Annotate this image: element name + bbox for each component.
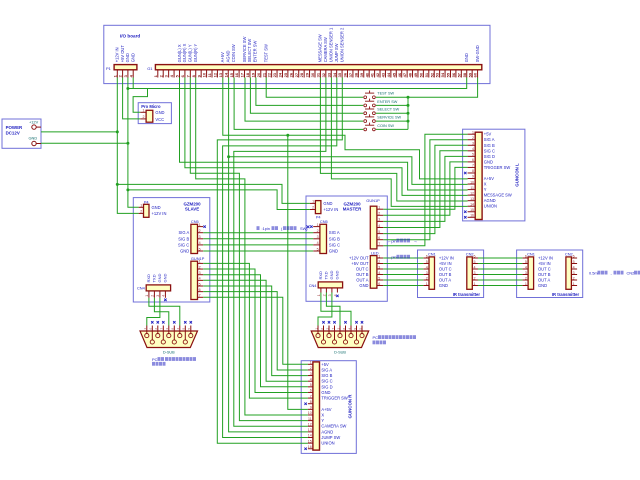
svg-text:3: 3 — [474, 271, 476, 275]
wire LED to IR1 CN1 OUT B — [383, 274, 423, 276]
power supply name — [6, 125, 23, 135]
svg-text:2: 2 — [426, 276, 428, 280]
svg-text:5: 5 — [199, 247, 201, 251]
connector P1 body — [114, 65, 137, 70]
svg-text:29: 29 — [305, 72, 310, 77]
connector P4 (master) refdes — [316, 214, 322, 219]
svg-text:SLAVE: SLAVE — [185, 207, 199, 212]
connector GUNCON L body — [475, 132, 482, 219]
svg-text:1: 1 — [312, 200, 314, 204]
svg-text:4: 4 — [378, 271, 380, 275]
svg-text:SIG D: SIG D — [321, 384, 332, 389]
wire +5V OUT P1 pin2 to Pro Micro VCC — [123, 78, 141, 119]
connector GUN1P (slave) refdes — [191, 256, 205, 261]
wire ENTER SW left — [256, 78, 363, 106]
svg-text:50: 50 — [418, 72, 423, 77]
svg-text:43: 43 — [381, 72, 386, 77]
connector CN4 (slave) pins — [149, 291, 166, 298]
wire MASTER GUN1P pin6 to GUNCON L pin2 — [383, 140, 467, 240]
connector CN5 (slave) body — [191, 224, 198, 253]
svg-text:3: 3 — [573, 271, 575, 275]
svg-text:TEST SW: TEST SW — [264, 44, 269, 62]
power pin +12V — [32, 125, 41, 129]
svg-text:+5V IN: +5V IN — [439, 261, 452, 266]
connector GUN1P (slave) pin numbers — [199, 260, 201, 298]
connector LED pin labels — [349, 256, 369, 289]
connector CN2 (2) refdes — [565, 251, 573, 256]
sheet GUNCON L name — [515, 163, 520, 187]
wire MASTER CN4 pin2 to D-SUB2 — [326, 293, 340, 326]
svg-text:40: 40 — [364, 72, 369, 77]
connector P1 pin labels — [115, 45, 136, 63]
connector CN4 (slave) body — [146, 285, 170, 291]
svg-text:AGND: AGND — [321, 429, 333, 434]
wire SERVICE SW left — [245, 78, 363, 122]
connector D-SUB 2 pin sockets — [316, 334, 364, 345]
svg-text:2: 2 — [312, 206, 314, 210]
svg-text:2: 2 — [151, 295, 155, 297]
svg-text:33: 33 — [326, 72, 331, 77]
wire MASTER CN4 pin3 to D-SUB2 — [318, 293, 332, 326]
svg-text:1: 1 — [140, 203, 142, 207]
svg-text:2: 2 — [140, 210, 142, 214]
svg-text:4: 4 — [573, 265, 575, 269]
svg-text:1: 1 — [472, 130, 474, 134]
svg-text:OUT A: OUT A — [439, 278, 451, 283]
svg-text:26: 26 — [288, 72, 293, 77]
junction switch bus SELECT — [407, 112, 410, 115]
svg-text:5: 5 — [525, 260, 527, 264]
sheet IR transmitter 1 box — [418, 250, 484, 298]
svg-text:SIG A: SIG A — [178, 230, 189, 235]
svg-text:I/O board: I/O board — [120, 34, 140, 39]
svg-text:OUT B: OUT B — [439, 272, 452, 277]
connector CN5 (slave) pin labels — [178, 230, 189, 253]
svg-text:CAMERA SW: CAMERA SW — [323, 37, 328, 62]
wire +12V P1 pin1 down to SLAVE P4 pin2 — [117, 78, 138, 214]
connector GUN1P (master) refdes — [366, 198, 380, 203]
wire TEST SW right — [376, 96, 408, 98]
svg-text:COIN SW: COIN SW — [231, 44, 236, 62]
svg-text:13: 13 — [470, 197, 474, 201]
wire SLAVE CN4 pin2 to D-SUB1 — [154, 298, 168, 326]
connector LED refdes — [371, 251, 379, 256]
svg-text:→: → — [414, 238, 418, 243]
svg-text:4: 4 — [426, 265, 428, 269]
junction switch bus ENTER — [407, 104, 410, 107]
sheet I/O board — [104, 25, 490, 83]
svg-text:1: 1 — [310, 361, 312, 365]
wire GUN(R) Y to GUNCON R pin10 — [196, 78, 308, 416]
svg-text:3: 3 — [378, 218, 380, 222]
svg-text:42: 42 — [375, 72, 380, 77]
svg-text:54: 54 — [440, 72, 445, 77]
svg-text:CN2: CN2 — [565, 251, 573, 256]
wire MASTER CN4 pin1 to D-SUB2 — [321, 293, 351, 326]
svg-text:14: 14 — [470, 202, 474, 206]
wire CN5 SIG A slave to master — [203, 232, 313, 234]
wire A+5V from G1 pin13 to GUNCON L pin9 — [223, 78, 468, 179]
svg-text:CN1: CN1 — [428, 251, 436, 256]
svg-text:GUN(L) Y: GUN(L) Y — [188, 44, 193, 62]
wire ENTER SW right — [376, 104, 408, 106]
connector CN1 (1) pin numbers — [426, 254, 428, 286]
svg-text:2: 2 — [317, 229, 319, 233]
svg-text:13: 13 — [218, 72, 223, 77]
connector CN5 (master) pins — [313, 227, 320, 251]
svg-text:7: 7 — [199, 294, 201, 298]
connector CN4 (master) pin numbers — [317, 294, 338, 296]
svg-text:2: 2 — [378, 260, 380, 264]
svg-text:2: 2 — [474, 276, 476, 280]
svg-text:57: 57 — [456, 72, 461, 77]
svg-text:1: 1 — [145, 295, 149, 297]
svg-text:+12V IN: +12V IN — [115, 47, 120, 62]
connector D-SUB 1 body — [140, 331, 198, 348]
connector P4 (master) pin labels — [323, 201, 338, 212]
wire UNION SENSER 1 to GUNCON L pin14 — [331, 78, 467, 207]
svg-text:ENTER SW: ENTER SW — [377, 100, 397, 104]
wire SERVICE SW right — [376, 120, 408, 122]
svg-text:8: 8 — [310, 400, 312, 404]
connector CN5 (master) pin labels — [329, 230, 340, 253]
svg-text:39: 39 — [359, 72, 364, 77]
connector GUNCON L pin labels — [484, 132, 512, 209]
wire SLAVE GUN1P pin6 to GUNCON R pin2 — [203, 292, 308, 370]
svg-text:←pin: ←pin — [388, 255, 397, 260]
power supply POWER DC12V box — [2, 119, 41, 148]
svg-text:12: 12 — [470, 191, 474, 195]
junction +12V rail split — [116, 183, 119, 186]
wire CN5 SIG B slave to master — [203, 238, 313, 240]
connector G1 refdes — [147, 66, 153, 71]
svg-text:2: 2 — [525, 276, 527, 280]
switch ENTER SW — [364, 99, 375, 107]
switch SERVICE SW label — [377, 116, 401, 120]
svg-text:1: 1 — [199, 260, 201, 264]
wire SELECT SW left — [250, 78, 363, 114]
svg-text:3: 3 — [472, 141, 474, 145]
svg-text:4: 4 — [474, 265, 476, 269]
svg-text:←pin: ←pin — [388, 238, 397, 243]
svg-text:16: 16 — [308, 445, 312, 449]
connector CN2 (1) refdes — [466, 251, 474, 256]
svg-text:3: 3 — [378, 265, 380, 269]
svg-text:19: 19 — [250, 72, 255, 77]
svg-text:13: 13 — [308, 428, 312, 432]
wire GUN(L) X to GUNCON L pin11 — [180, 78, 468, 191]
connector CN1 (1) pins — [423, 258, 429, 286]
connector CN4 (master) pin4 no-connect — [336, 295, 338, 297]
connector P4 (slave) refdes — [144, 199, 150, 204]
svg-text:2: 2 — [199, 229, 201, 233]
svg-text:1: 1 — [426, 282, 428, 286]
svg-text:4: 4 — [472, 147, 474, 151]
svg-text:10: 10 — [470, 180, 474, 184]
svg-text:GND: GND — [157, 274, 162, 283]
svg-text:8: 8 — [472, 169, 474, 173]
connector P1 pins — [117, 70, 133, 77]
wire GND branch to Pro Micro pin1 — [133, 89, 147, 113]
svg-text:OUT C: OUT C — [356, 267, 369, 272]
connector CN4 (slave) pin numbers — [145, 295, 166, 297]
connector GUNCON R pin labels — [321, 362, 348, 446]
svg-text:+5V OUT: +5V OUT — [120, 45, 125, 63]
wire MASTER GUN1P pin2 to GUNCON L pin6 — [383, 162, 467, 215]
connector CN2 (2) pin numbers — [573, 254, 575, 286]
svg-text:OUT B: OUT B — [538, 272, 551, 277]
svg-text:OUT A: OUT A — [538, 278, 550, 283]
wire IR1 CN2 to IR2 CN1 OUT C — [478, 268, 523, 270]
connector D-SUB 1 pin numbers — [143, 328, 191, 330]
connector CN1 (1) pin labels — [439, 256, 454, 289]
switch TEST SW — [364, 91, 375, 99]
connector P1 refdes — [106, 66, 112, 71]
svg-text:CAMERA SW: CAMERA SW — [321, 424, 346, 429]
svg-text:3: 3 — [310, 372, 312, 376]
svg-text:SELECT SW: SELECT SW — [377, 108, 399, 112]
svg-text:SIG C: SIG C — [484, 148, 495, 153]
connector J-promicro body — [146, 110, 153, 122]
wire MASTER GUN1P pin4 to GUNCON L pin4 — [383, 151, 467, 228]
connector CN5 (slave) pins — [198, 227, 204, 251]
wire LED to IR1 CN1 GND — [383, 285, 423, 287]
svg-text:TRIGGER SW: TRIGGER SW — [321, 396, 348, 401]
svg-text:D-SUB: D-SUB — [163, 351, 175, 355]
svg-text:,: , — [611, 271, 612, 276]
svg-text:SERVICE SW: SERVICE SW — [242, 37, 247, 63]
wire +12V rail to MASTER P4 pin1 row — [117, 184, 310, 203]
switch COIN SW — [364, 123, 375, 131]
svg-text:2: 2 — [378, 212, 380, 216]
svg-text:5: 5 — [310, 383, 312, 387]
connector P4 (slave) pins — [139, 207, 144, 213]
connector CN1 (2) pin numbers — [525, 254, 527, 286]
junction GND at POWER rail — [126, 142, 129, 145]
svg-text:14: 14 — [308, 434, 312, 438]
svg-text:X: X — [321, 412, 324, 417]
svg-text:+5V IN: +5V IN — [538, 261, 551, 266]
connector CN5 (slave) pin numbers — [199, 223, 201, 251]
svg-text:21: 21 — [261, 72, 266, 77]
svg-text:GUN(L) X: GUN(L) X — [177, 44, 182, 62]
svg-text:GUN(R) Y: GUN(R) Y — [193, 43, 198, 62]
connector CN4 (slave) pin4 no-connect — [164, 299, 166, 301]
wire MASTER GUN1P pin5 to GUNCON L pin3 — [383, 145, 467, 233]
wire A+5V branch to GUNCON R pin9 — [288, 135, 308, 409]
junction +12V at POWER rail — [116, 130, 119, 133]
svg-text:3: 3 — [426, 271, 428, 275]
svg-text:4: 4 — [199, 277, 201, 281]
connector CN5 (master) body — [320, 224, 327, 253]
svg-text:47: 47 — [402, 72, 407, 77]
wire CN5 GND slave to master — [203, 250, 313, 252]
svg-text:CN4: CN4 — [309, 283, 318, 288]
svg-text:58: 58 — [462, 72, 467, 77]
svg-text:5: 5 — [426, 260, 428, 264]
connector G1 pins — [158, 70, 478, 77]
svg-text:JUMP SW: JUMP SW — [334, 43, 339, 62]
svg-text:UNION: UNION — [484, 204, 497, 209]
wire GND P1 pin4 join — [128, 78, 133, 89]
svg-text:GND: GND — [329, 271, 334, 280]
svg-text:5: 5 — [472, 153, 474, 157]
module Pro Micro name — [141, 104, 161, 109]
wire LED to IR1 CN1 OUT A — [383, 279, 423, 281]
svg-text:P4: P4 — [144, 199, 150, 204]
svg-text:16: 16 — [470, 214, 474, 218]
wire SLAVE GUN1P pin3 to GUNCON R pin5 — [203, 275, 308, 387]
svg-text:12: 12 — [308, 422, 312, 426]
connector GUNCON L pins — [468, 134, 476, 217]
svg-text:GND: GND — [180, 249, 189, 254]
svg-text:4: 4 — [199, 241, 201, 245]
svg-text:SIG D: SIG D — [484, 154, 495, 159]
svg-text:1: 1 — [378, 206, 380, 210]
wire LED to IR1 CN1 +12V IN — [383, 257, 423, 259]
svg-text:53: 53 — [435, 72, 440, 77]
svg-text:34: 34 — [332, 72, 337, 77]
svg-text:CN5: CN5 — [320, 219, 328, 224]
svg-text:9: 9 — [472, 175, 474, 179]
svg-text:UNION SENSER 2: UNION SENSER 2 — [339, 27, 344, 62]
svg-text:A+5V: A+5V — [484, 176, 494, 181]
svg-text:JUMP SW: JUMP SW — [321, 435, 340, 440]
svg-text:1: 1 — [199, 223, 201, 227]
svg-text:GND: GND — [321, 390, 330, 395]
svg-text:20: 20 — [256, 72, 261, 77]
wire COIN SW right — [376, 128, 408, 130]
svg-text:G1: G1 — [147, 66, 153, 71]
svg-text:GND: GND — [152, 205, 161, 210]
svg-text:CN2: CN2 — [627, 271, 635, 276]
svg-text:OUT B: OUT B — [356, 272, 369, 277]
connector G1 body — [155, 65, 481, 70]
connector CN5 (master) pin numbers — [317, 223, 319, 251]
svg-text:OUT C: OUT C — [439, 267, 452, 272]
svg-text:2: 2 — [310, 366, 312, 370]
svg-text:GND: GND — [538, 283, 547, 288]
svg-text:5: 5 — [378, 276, 380, 280]
svg-text:P1: P1 — [106, 66, 112, 71]
svg-text:28: 28 — [299, 72, 304, 77]
svg-text:GND: GND — [163, 274, 168, 283]
svg-text:15: 15 — [229, 72, 234, 77]
svg-text:1: 1 — [525, 282, 527, 286]
wire IR1 CN2 to IR2 CN1 OUT B — [478, 274, 523, 276]
note D-SUB1 cable line1 — [152, 357, 196, 362]
power pin +12V label — [29, 119, 39, 124]
junction GND rail split — [126, 188, 129, 191]
connector P4 (slave) body — [144, 204, 150, 217]
connector CN4 (master) refdes — [309, 283, 318, 288]
svg-text:GND: GND — [131, 53, 136, 62]
svg-text:51: 51 — [424, 72, 429, 77]
svg-text:4: 4 — [378, 224, 380, 228]
connector LED body — [370, 256, 377, 289]
note coax at IR transmitter 2 — [589, 271, 640, 276]
junction switch bus TEST — [407, 96, 410, 99]
wire AGND from G1 pin14 to GUNCON R pin13 — [229, 78, 308, 432]
connector D-SUB 1 no-connect marks — [151, 321, 192, 323]
connector CN4 (master) pins — [321, 288, 338, 293]
wire AGND branch to GUNCON L pin10 — [229, 157, 468, 185]
svg-text:GND: GND — [359, 283, 368, 288]
junction switch bus SERVICE — [407, 120, 410, 123]
wire MASTER GUN1P pin1 to GUNCON L pin7 — [383, 167, 467, 209]
connector P1 pin numbers — [112, 74, 133, 77]
connector CN4 (master) pin labels — [318, 271, 340, 280]
svg-text:+5V: +5V — [321, 362, 329, 367]
connector LED pins — [377, 258, 383, 286]
wire SLAVE GUN1P pin5 to GUNCON R pin3 — [203, 286, 308, 376]
svg-text:CN4: CN4 — [137, 285, 146, 290]
connector CN4 (slave) pin labels — [146, 274, 168, 283]
svg-text:6: 6 — [426, 254, 428, 258]
svg-text:55: 55 — [446, 72, 451, 77]
connector GUNCON R no-connect pins — [304, 403, 306, 450]
module GZM200 SLAVE name — [183, 201, 201, 211]
svg-text:45: 45 — [391, 72, 396, 77]
wire GND P1 pin3 down to SLAVE P4 pin1 — [128, 78, 139, 208]
svg-text:MESSAGE SW: MESSAGE SW — [318, 34, 323, 62]
svg-text:RXD: RXD — [146, 274, 151, 283]
svg-text:17: 17 — [240, 72, 245, 77]
wire LED to IR1 CN1 +5V IN — [383, 263, 423, 265]
connector CN1 (1) refdes — [428, 251, 436, 256]
wire SLAVE GUN1P pin4 to GUNCON R pin4 — [203, 280, 308, 381]
connector CN4 (slave) refdes — [137, 285, 146, 290]
svg-text:11: 11 — [470, 186, 474, 190]
connector D-SUB 1 pins — [147, 326, 191, 340]
wire IR1 CN2 to IR2 CN1 OUT A — [478, 279, 523, 281]
connector CN1 (2) pin labels — [538, 256, 553, 289]
module GZM200 SLAVE box — [133, 198, 210, 302]
svg-text:COIN SW: COIN SW — [377, 124, 394, 128]
connector CN1 (1) body — [429, 257, 435, 289]
wire SELECT SW right — [376, 112, 408, 114]
svg-text:0.5m: 0.5m — [589, 271, 598, 276]
svg-text:AGND: AGND — [484, 198, 496, 203]
switch TEST SW label — [377, 92, 394, 96]
svg-text:GND: GND — [329, 249, 338, 254]
connector P4 (slave) pin labels — [152, 205, 167, 216]
svg-text:UNION SENSER 1: UNION SENSER 1 — [329, 27, 334, 62]
svg-text:ENTER SW: ENTER SW — [253, 41, 258, 63]
svg-text:2: 2 — [143, 115, 145, 119]
svg-text:6: 6 — [199, 288, 201, 292]
wire JUMP SW to GUNCON R pin14 — [223, 78, 337, 438]
wire GND rail to MASTER P4 pin2 row — [128, 190, 310, 210]
switch SELECT SW — [364, 106, 375, 114]
wire GND from POWER to P1 pin3 — [41, 142, 128, 144]
svg-text:+5V: +5V — [484, 132, 492, 137]
connector CN5 (master) pin1 no-connect — [310, 225, 312, 227]
wire TEST SW left — [266, 78, 363, 98]
switch SERVICE SW — [364, 114, 375, 122]
wire SLAVE GUN1P pin7 to GUNCON R pin1 — [203, 297, 308, 364]
wire IR1 CN2 to IR2 CN1 GND — [478, 285, 523, 287]
svg-text:SIG C: SIG C — [321, 379, 332, 384]
svg-text:7: 7 — [310, 394, 312, 398]
sheet GUNCON R name — [348, 394, 353, 419]
sheet IR transmitter 2 box — [517, 250, 583, 298]
svg-text:MASTER: MASTER — [343, 207, 362, 212]
svg-text:46: 46 — [397, 72, 402, 77]
svg-text:27: 27 — [294, 72, 299, 77]
svg-text:10: 10 — [308, 411, 312, 415]
svg-text:18: 18 — [245, 72, 250, 77]
